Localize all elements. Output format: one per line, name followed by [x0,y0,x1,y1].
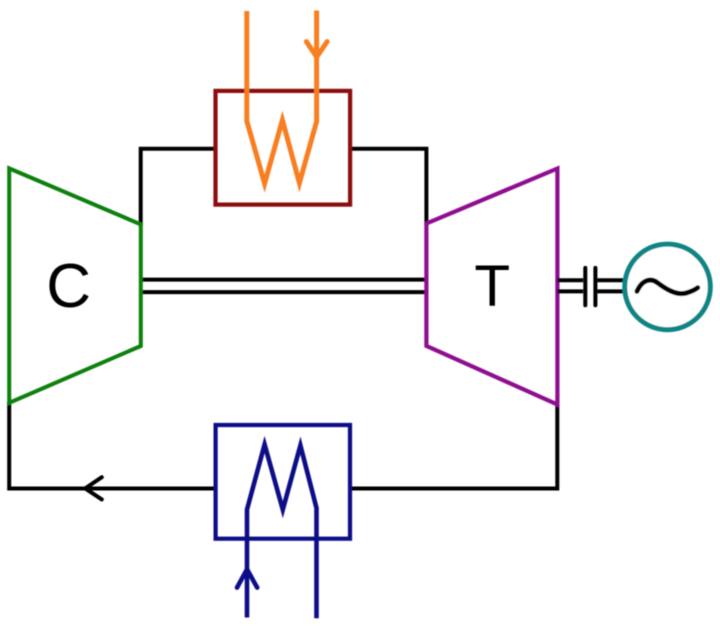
coupling (two bars) [585,268,595,305]
shaft stub: turbine to coupling [557,280,583,291]
AC sine symbol inside generator [637,280,698,294]
shaft stub: coupling to generator [597,280,627,291]
arrowhead: heat stream entering (pointing down) [306,42,327,57]
wire: cooler outlet left and up to compressor inlet [9,402,217,489]
wire: turbine outlet down and left to cooler inlet [352,403,558,489]
arrowhead: cooling stream entering (pointing up) [237,569,257,587]
shaft (double line) between compressor and turbine [141,280,426,293]
turbine T (purple trapezoid) [426,169,557,405]
wire: compressor outlet up and right to heater inlet [141,149,215,226]
svg-text:C: C [46,252,91,321]
heater box [216,91,351,205]
cooler box [216,425,350,539]
heat input stream: orange zigzag through heater [247,11,317,184]
cooling stream: blue zigzag through cooler [247,445,317,619]
svg-text:T: T [474,254,510,319]
wire: heater outlet right and down to turbine inlet [349,149,427,225]
generator (teal circle) [625,244,711,330]
compressor C (green trapezoid) [9,168,141,402]
arrowhead: flow direction on bottom wire (pointing left) [85,477,102,499]
